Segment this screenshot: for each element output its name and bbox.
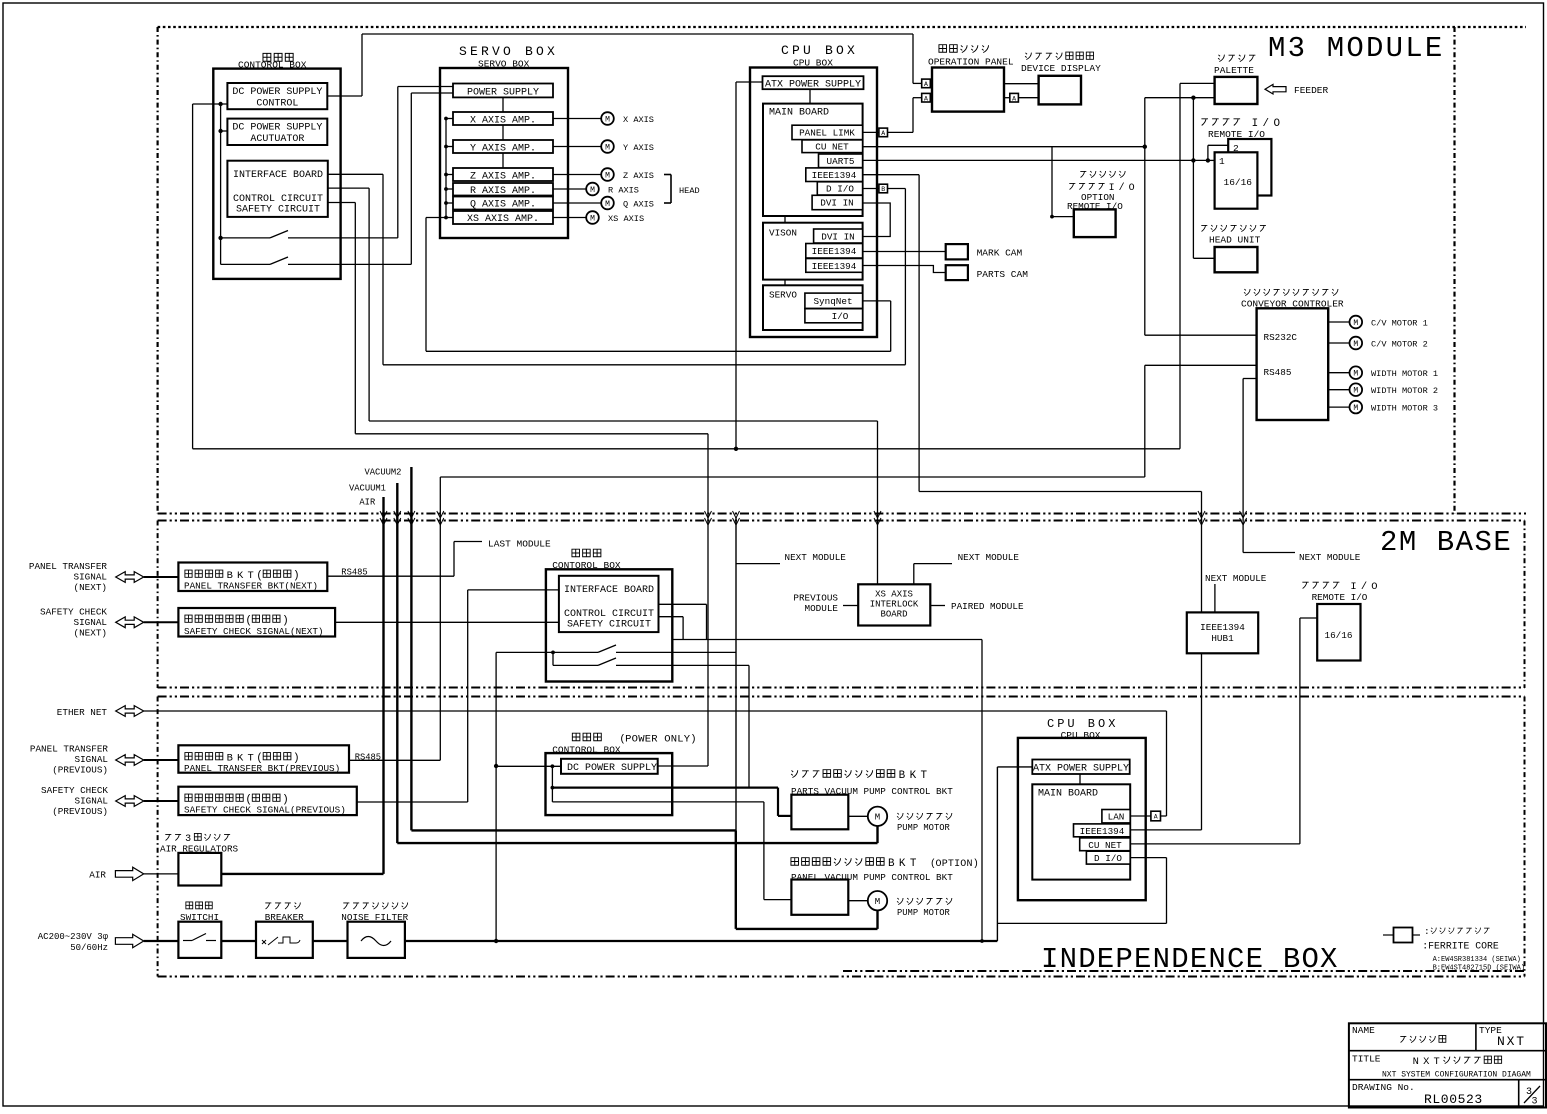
box R AXIS AMP <box>453 183 553 197</box>
svg-text:RS232C: RS232C <box>1264 332 1298 343</box>
svg-text:VACUUM1: VACUUM1 <box>349 484 386 494</box>
box VISON <box>763 223 863 280</box>
svg-text:): ) <box>690 734 696 746</box>
wire DC power supply connections <box>496 764 791 899</box>
motor WIDTH MOTOR 3 <box>1328 401 1438 414</box>
svg-text:Z AXIS AMP.: Z AXIS AMP. <box>470 171 536 182</box>
box XS AXIS INTERLOCK BOARD <box>858 584 930 625</box>
svg-text:R AXIS AMP.: R AXIS AMP. <box>470 186 536 197</box>
svg-text:PANEL TRANSFER: PANEL TRANSFER <box>29 561 108 572</box>
svg-text:RS485: RS485 <box>1264 367 1292 378</box>
svg-text:K: K <box>899 858 906 870</box>
wire IEEE1394 main to hub drop <box>863 174 920 176</box>
motor C/V MOTOR 2 <box>1328 337 1428 350</box>
box LAN <box>1102 810 1130 823</box>
svg-text:Q AXIS: Q AXIS <box>623 200 654 210</box>
svg-text:O: O <box>936 859 942 870</box>
box D I/O (independence) <box>1086 851 1130 864</box>
svg-text:/: / <box>1119 182 1125 193</box>
VACUUM1 line <box>349 483 397 843</box>
box IEEE1394 (independence) <box>1074 824 1131 837</box>
svg-text:DEVICE DISPLAY: DEVICE DISPLAY <box>1021 63 1101 74</box>
svg-text:M: M <box>605 115 610 124</box>
svg-text:WIDTH MOTOR 3: WIDTH MOTOR 3 <box>1371 404 1438 414</box>
label RS485 (previous) <box>355 753 381 763</box>
wire panel transfer next RS485 <box>327 575 454 577</box>
svg-text:K: K <box>910 770 917 782</box>
box MARK CAM <box>946 244 1023 259</box>
wire DC supply control to operation panel <box>327 34 932 96</box>
wire switch1 to servo power supply <box>398 87 453 238</box>
svg-text:SERVO: SERVO <box>769 290 797 301</box>
svg-text:RS485: RS485 <box>355 753 381 763</box>
FEEDER arrow <box>1265 84 1329 96</box>
M3 MODULE region dashed border <box>158 27 1526 514</box>
box BREAKER <box>256 902 313 957</box>
wire vison ieee1394-1 to MARK CAM <box>863 251 946 253</box>
wire bottom cpu internal connector <box>1079 774 1081 784</box>
wire operation panel to device display upper <box>1004 83 1039 85</box>
svg-text:I: I <box>954 859 960 870</box>
svg-text:CU NET: CU NET <box>815 142 849 153</box>
box INTERFACE BOARD / CONTROL CIRCUIT SAFETY CIRCUIT (M3) <box>227 161 327 217</box>
svg-text:MAIN BOARD: MAIN BOARD <box>769 108 829 119</box>
box SAFETY CHECK SIGNAL(NEXT) <box>178 608 335 637</box>
wire safety check previous to 2M interface board <box>357 590 559 802</box>
svg-text:O: O <box>1129 182 1135 193</box>
wire AC mains line <box>144 940 998 942</box>
svg-text:NXT SYSTEM CONFIGURATION DIAGA: NXT SYSTEM CONFIGURATION DIAGAM <box>1382 1071 1531 1080</box>
box POWER SUPPLY <box>453 84 553 99</box>
svg-text:D I/O: D I/O <box>826 184 854 195</box>
svg-text:M: M <box>590 186 595 195</box>
svg-text:FEEDER: FEEDER <box>1294 85 1329 96</box>
REMOTE I/O (M3) labels <box>1201 118 1280 140</box>
svg-text:(PREVIOUS): (PREVIOUS) <box>52 806 108 817</box>
svg-text:SAFETY CHECK SIGNAL(NEXT): SAFETY CHECK SIGNAL(NEXT) <box>184 626 323 637</box>
motor C/V MOTOR 1 <box>1328 316 1428 329</box>
svg-text:(NEXT): (NEXT) <box>74 628 107 639</box>
svg-text:M: M <box>605 143 610 152</box>
svg-text:SAFETY CHECK: SAFETY CHECK <box>41 785 108 796</box>
border crossing arrows M3 to 2M <box>380 511 1247 525</box>
svg-text:SAFETY CHECK: SAFETY CHECK <box>40 607 107 618</box>
wire VACUUM1 to pump motor 1 <box>397 826 877 843</box>
wire UART5 to remote I/O boxes <box>863 145 1229 162</box>
svg-text:SAFETY CHECK SIGNAL(PREVIOUS): SAFETY CHECK SIGNAL(PREVIOUS) <box>184 805 346 816</box>
motor Z AXIS <box>553 168 654 181</box>
svg-text:MODULE: MODULE <box>805 603 839 614</box>
svg-text:O: O <box>960 859 966 870</box>
svg-text:XS AXIS AMP.: XS AXIS AMP. <box>467 214 539 225</box>
label PAIRED MODULE with wire <box>930 601 1024 612</box>
wire DVI IN loop main-to-vison <box>863 203 891 237</box>
svg-text::FERRITE CORE: :FERRITE CORE <box>1422 941 1499 952</box>
box DEVICE DISPLAY <box>1021 52 1101 104</box>
svg-text:M: M <box>1353 404 1358 413</box>
switch contact 2 in M3 control box <box>221 257 412 264</box>
svg-text:ACUTUATOR: ACUTUATOR <box>250 134 304 145</box>
wire DC power supply control left drop bus <box>192 104 194 449</box>
label LAST MODULE with pointer <box>454 539 551 577</box>
box CONVEYOR CONTROLER <box>1241 289 1344 420</box>
SERVO BOX outer <box>440 44 568 238</box>
svg-text:M: M <box>1353 340 1358 349</box>
svg-text:2M BASE: 2M BASE <box>1380 526 1512 559</box>
svg-text:Y AXIS AMP.: Y AXIS AMP. <box>470 143 536 154</box>
svg-text:SIGNAL: SIGNAL <box>74 617 107 628</box>
svg-text:CONTROL CIRCUIT: CONTROL CIRCUIT <box>233 194 323 205</box>
svg-text:50/60Hz: 50/60Hz <box>70 943 108 953</box>
svg-text:SIGNAL: SIGNAL <box>75 754 108 765</box>
wire operation panel to device display lower with ferrite <box>1004 97 1039 99</box>
ferrite core legend <box>1383 926 1525 973</box>
label NEXT MODULE (right) with pointer <box>1243 379 1361 564</box>
2M control box outer <box>546 549 672 681</box>
svg-text:3: 3 <box>1532 1097 1538 1108</box>
CPU BOX (independence) outer <box>1018 717 1146 900</box>
box X AXIS AMP <box>453 112 553 126</box>
HEAD bracket <box>664 175 700 204</box>
svg-text:LAN: LAN <box>1108 812 1125 823</box>
svg-text:OPERATION PANEL: OPERATION PANEL <box>928 57 1014 68</box>
svg-text:A: A <box>924 81 928 88</box>
svg-text:NEXT MODULE: NEXT MODULE <box>958 552 1020 563</box>
svg-text:DVI IN: DVI IN <box>821 232 854 243</box>
svg-text:CPU BOX: CPU BOX <box>1047 717 1118 731</box>
wire palette group drop to remote I/O and head unit <box>1191 98 1214 259</box>
svg-text:B: B <box>899 770 906 782</box>
svg-text:B:EW4ST482715D (SEIWA): B:EW4ST482715D (SEIWA) <box>1433 965 1525 973</box>
box DVI IN (main board) <box>812 195 863 209</box>
box IEEE1394 (main board) <box>806 168 863 182</box>
wire 2M interface board outputs to AC return <box>659 604 984 943</box>
wire interface pin3 to independence DC power supply <box>328 203 708 767</box>
svg-text:N: N <box>1413 1056 1419 1068</box>
svg-text:SIGNAL: SIGNAL <box>74 572 107 583</box>
svg-text:SAFETY CIRCUIT: SAFETY CIRCUIT <box>567 620 651 631</box>
box DC POWER SUPPLY CONTROL <box>227 83 327 110</box>
title INDEPENDENCE BOX <box>1041 943 1339 976</box>
AIR line <box>221 497 383 874</box>
box INTERFACE BOARD (2M) <box>559 576 659 632</box>
box AIR REGULATORS <box>160 833 239 886</box>
svg-text:HEAD: HEAD <box>679 186 700 196</box>
svg-text::: : <box>1424 926 1430 937</box>
svg-text:INTERFACE BOARD: INTERFACE BOARD <box>233 170 323 181</box>
svg-text:NEXT MODULE: NEXT MODULE <box>1299 552 1361 563</box>
svg-text:B: B <box>881 186 885 193</box>
svg-text:16/16: 16/16 <box>1224 177 1253 188</box>
svg-text:A: A <box>924 95 928 102</box>
wire cpu internal connectors <box>785 89 810 285</box>
wire amp chain connectors <box>502 97 504 168</box>
svg-text:WIDTH MOTOR 2: WIDTH MOTOR 2 <box>1371 386 1438 396</box>
svg-text:A: A <box>1012 95 1016 102</box>
svg-text:AIR: AIR <box>89 870 106 881</box>
svg-text:3: 3 <box>185 833 191 844</box>
box REMOTE I/O 2 (M3) <box>1228 139 1271 196</box>
svg-text:SynqNet: SynqNet <box>813 296 852 307</box>
svg-text:VISON: VISON <box>769 228 797 239</box>
wire 2M switch drop to AC line <box>494 652 498 943</box>
wire safety check next to 2M control box <box>335 621 559 623</box>
wire ETHER NET to LAN <box>144 711 1167 816</box>
svg-text:C/V MOTOR 2: C/V MOTOR 2 <box>1371 340 1428 350</box>
svg-text:O: O <box>1273 118 1280 130</box>
arrow SAFETY CHECK SIGNAL (NEXT) <box>40 607 178 639</box>
svg-text:M: M <box>875 897 880 907</box>
wire vison ieee1394-2 to PARTS CAM <box>863 266 946 273</box>
svg-text:E: E <box>645 734 651 746</box>
svg-text:WIDTH MOTOR 1: WIDTH MOTOR 1 <box>1371 369 1438 379</box>
box HEAD UNIT <box>1201 225 1266 272</box>
svg-text:P: P <box>942 859 948 870</box>
ferrite core A (op panel feed) <box>922 79 931 88</box>
svg-text:N: N <box>671 734 677 746</box>
svg-text:CU NET: CU NET <box>1088 840 1122 851</box>
box I/O (servo) <box>805 309 863 323</box>
wire CU NET branch to option remote I/O <box>1050 147 1074 219</box>
box DC POWER SUPPLY ACUTUATOR <box>227 119 327 145</box>
svg-text:PANEL TRANSFER BKT(PREVIOUS): PANEL TRANSFER BKT(PREVIOUS) <box>184 763 340 774</box>
box OPTION REMOTE I/O <box>1067 171 1135 237</box>
box MAIN BOARD (M3) <box>763 104 863 216</box>
svg-text:IEEE1394: IEEE1394 <box>812 170 857 181</box>
svg-text:T: T <box>921 770 928 782</box>
box MAIN BOARD (independence) <box>1032 784 1130 879</box>
wire hub1 to bottom ieee1394 <box>1130 653 1201 830</box>
svg-text:VACUUM2: VACUUM2 <box>365 468 402 478</box>
wire ATX (M3) power feed vertical <box>736 82 763 449</box>
svg-text:I/O: I/O <box>832 311 849 322</box>
svg-text:P: P <box>625 734 631 746</box>
svg-text:AIR: AIR <box>359 498 376 508</box>
box CU NET (independence) <box>1080 838 1131 851</box>
svg-text:PANEL TRANSFER: PANEL TRANSFER <box>30 744 109 755</box>
svg-text:B: B <box>888 858 895 870</box>
svg-text:RL00523: RL00523 <box>1424 1092 1483 1107</box>
title 2M BASE <box>1380 526 1512 559</box>
svg-text:R: R <box>651 734 658 746</box>
wire interface pin1 to D I/O loop <box>328 174 906 364</box>
svg-text:A: A <box>1154 814 1158 821</box>
ferrite core A (panel limk near cpu) <box>879 128 888 137</box>
box Y AXIS AMP <box>453 140 553 154</box>
svg-text:REMOTE I/O: REMOTE I/O <box>1312 592 1368 603</box>
svg-text:AC200~230V 3φ: AC200~230V 3φ <box>38 932 109 942</box>
svg-text:NEXT MODULE: NEXT MODULE <box>1205 573 1267 584</box>
svg-text:SAFETY CIRCUIT: SAFETY CIRCUIT <box>236 205 320 216</box>
arrow ETHER NET <box>57 706 144 718</box>
svg-text:PUMP MOTOR: PUMP MOTOR <box>897 823 951 833</box>
box Q AXIS AMP <box>453 197 553 211</box>
box D I/O (M3) <box>817 182 862 195</box>
svg-text:CONTROL CIRCUIT: CONTROL CIRCUIT <box>564 609 654 620</box>
svg-text:D I/O: D I/O <box>1094 853 1122 864</box>
box SynqNet <box>805 293 863 308</box>
svg-text:A: A <box>881 130 885 137</box>
label NEXT MODULE (xs interlock) with pointer <box>914 552 1020 584</box>
wire amp left feed bus <box>444 117 453 220</box>
label PREVIOUS MODULE with wire <box>793 593 858 615</box>
svg-text:PANEL TRANSFER BKT(NEXT): PANEL TRANSFER BKT(NEXT) <box>184 581 318 592</box>
svg-text:R AXIS: R AXIS <box>608 186 639 196</box>
svg-text:MARK CAM: MARK CAM <box>977 248 1023 259</box>
2M BASE region dashed border <box>158 521 1525 689</box>
svg-text:N: N <box>967 859 973 870</box>
svg-text:X: X <box>1423 1056 1430 1068</box>
svg-text:M: M <box>605 200 610 209</box>
motor WIDTH MOTOR 1 <box>1328 366 1438 379</box>
svg-text:XS AXIS: XS AXIS <box>875 590 913 600</box>
box NOISE FILTER <box>341 902 408 957</box>
box DC POWER SUPPLY (power only) <box>561 759 658 774</box>
svg-text:M: M <box>1353 387 1358 396</box>
motor X AXIS <box>553 112 654 125</box>
svg-text:DC POWER SUPPLY: DC POWER SUPPLY <box>232 123 322 134</box>
svg-text:M: M <box>1353 370 1358 379</box>
box REMOTE I/O 16/16 (2M) <box>1302 581 1377 661</box>
label NEXT MODULE (left) with pointer <box>736 552 846 564</box>
svg-text:M: M <box>875 813 880 823</box>
svg-text:PANEL LIMK: PANEL LIMK <box>799 128 855 139</box>
wire main bus drop and VACUUM2 to pump motor 2 <box>736 517 878 929</box>
svg-text:INTERFACE BOARD: INTERFACE BOARD <box>564 585 654 596</box>
box IEEE1394 (vison 1) <box>806 244 863 259</box>
title M3 MODULE <box>1268 32 1444 65</box>
box DVI IN (vison) <box>814 229 863 243</box>
svg-text:TITLE: TITLE <box>1352 1054 1381 1065</box>
arrow PANEL TRANSFER SIGNAL (NEXT) <box>29 561 179 593</box>
svg-text:UART5: UART5 <box>827 156 855 167</box>
box PANEL VACUUM PUMP CONTROL BKT <box>791 858 979 915</box>
svg-text:PAIRED MODULE: PAIRED MODULE <box>951 601 1024 612</box>
svg-text:O: O <box>664 734 670 746</box>
svg-text:T: T <box>948 859 954 870</box>
arrow AC200-230V <box>38 932 144 953</box>
box ATX POWER SUPPLY (M3) <box>763 76 864 90</box>
svg-text:O: O <box>1371 581 1377 593</box>
INDEPENDENCE BOX region dashed border <box>158 697 1525 977</box>
svg-text:DC POWER SUPPLY: DC POWER SUPPLY <box>232 87 322 98</box>
wire switch2 to servo power supply <box>411 93 453 264</box>
box XS AXIS AMP <box>453 211 553 225</box>
svg-text:X AXIS: X AXIS <box>623 115 654 125</box>
motor PUMP MOTOR 1 <box>848 807 952 833</box>
svg-text:T: T <box>1434 1056 1440 1068</box>
box PANEL TRANSFER BKT(NEXT) <box>178 563 327 592</box>
box SAFETY CHECK SIGNAL(PREVIOUS) <box>178 787 356 816</box>
arrow SAFETY CHECK SIGNAL (PREVIOUS) <box>41 785 178 817</box>
svg-text:HUB1: HUB1 <box>1211 633 1234 644</box>
svg-text:T: T <box>910 858 917 870</box>
motor Q AXIS <box>553 197 654 210</box>
ferrite core A (panel limk near panel) <box>922 93 931 102</box>
box IEEE1394 (vison 2) <box>806 259 863 273</box>
wire 2M switch2 drop <box>748 665 750 787</box>
svg-text:ATX POWER SUPPLY: ATX POWER SUPPLY <box>765 79 861 90</box>
svg-text:POWER SUPPLY: POWER SUPPLY <box>467 87 539 98</box>
wire panel transfer previous RS485 <box>349 759 440 761</box>
svg-text:NEXT MODULE: NEXT MODULE <box>785 552 847 563</box>
box SWITCHI (kaiheiki) <box>178 902 221 958</box>
svg-text:SERVO BOX: SERVO BOX <box>459 44 558 59</box>
svg-text:DC POWER SUPPLY: DC POWER SUPPLY <box>567 763 657 774</box>
svg-text:): ) <box>973 858 979 870</box>
svg-text:PUMP MOTOR: PUMP MOTOR <box>897 908 951 918</box>
svg-text:(PREVIOUS): (PREVIOUS) <box>52 765 108 776</box>
box PARTS CAM <box>946 265 1029 280</box>
label NEXT MODULE (hub) with pointer <box>1205 573 1267 612</box>
svg-text:CPU BOX: CPU BOX <box>1061 730 1101 741</box>
M3 control box (seigyoban) outer <box>213 53 340 279</box>
svg-text:CPU BOX: CPU BOX <box>781 43 858 58</box>
arrow AIR <box>89 867 178 880</box>
svg-text:HEAD UNIT: HEAD UNIT <box>1209 235 1261 246</box>
box Z AXIS AMP <box>453 168 553 182</box>
wire main DC bus horizontal to palette <box>193 447 1180 451</box>
box UART5 <box>819 154 863 168</box>
svg-text:PALETTE: PALETTE <box>1214 65 1254 76</box>
svg-text:INDEPENDENCE BOX: INDEPENDENCE BOX <box>1041 943 1339 976</box>
box PANEL TRANSFER BKT(PREVIOUS) <box>178 745 349 774</box>
box IEEE1394 HUB1 <box>1187 612 1258 653</box>
svg-text:IEEE1394: IEEE1394 <box>1200 622 1245 633</box>
svg-text:16/16: 16/16 <box>1325 630 1353 641</box>
svg-text:Y AXIS: Y AXIS <box>623 143 654 153</box>
motor XS AXIS <box>553 211 644 224</box>
svg-text:IEEE1394: IEEE1394 <box>812 261 857 272</box>
svg-text:1: 1 <box>1219 156 1225 167</box>
svg-text:DRAWING No.: DRAWING No. <box>1352 1082 1415 1093</box>
box PANEL LIMK <box>792 125 863 139</box>
VACUUM2 line <box>365 467 736 830</box>
svg-text:PARTS CAM: PARTS CAM <box>977 269 1029 280</box>
svg-text:DVI IN: DVI IN <box>820 198 853 209</box>
wire conveyor RS485 chain <box>440 365 1256 760</box>
svg-text:MAIN BOARD: MAIN BOARD <box>1038 789 1098 800</box>
svg-text:CONTROL: CONTROL <box>256 99 298 110</box>
svg-text:X AXIS AMP.: X AXIS AMP. <box>470 115 536 126</box>
label RS485 (next) <box>341 568 367 578</box>
box PALETTE <box>1214 55 1257 104</box>
svg-text:BOARD: BOARD <box>880 610 907 620</box>
svg-text:C/V MOTOR 1: C/V MOTOR 1 <box>1371 319 1428 329</box>
wire IEEE1394 vertical and hub1 link <box>919 175 1201 613</box>
motor Y AXIS <box>553 140 654 153</box>
wire internal DC bus of M3 control box <box>193 102 228 265</box>
svg-text:O: O <box>632 734 638 746</box>
svg-text:PANEL VACUUM PUMP CONTROL BKT: PANEL VACUUM PUMP CONTROL BKT <box>791 872 953 883</box>
title block <box>1349 1023 1546 1107</box>
power-only control box outer <box>546 733 697 815</box>
ferrite core A (LAN) <box>1151 811 1161 821</box>
svg-text:M: M <box>605 171 610 180</box>
wire CU NET bus <box>863 96 1257 336</box>
CPU BOX (M3) outer <box>750 43 877 337</box>
wire palette power feed <box>1180 83 1215 448</box>
svg-text:ETHER NET: ETHER NET <box>57 707 108 718</box>
svg-text:IEEE1394: IEEE1394 <box>812 246 857 257</box>
box OPERATION PANEL <box>928 45 1014 112</box>
svg-text:Z AXIS: Z AXIS <box>623 171 654 181</box>
svg-text:NAME: NAME <box>1352 1025 1375 1036</box>
wire bottom cu net to 2M remote 16/16 <box>1130 618 1317 844</box>
ferrite core A (device display) <box>1010 93 1019 102</box>
box ATX POWER SUPPLY (independence) <box>1032 760 1129 775</box>
ferrite core B (D I/O) <box>879 184 888 193</box>
